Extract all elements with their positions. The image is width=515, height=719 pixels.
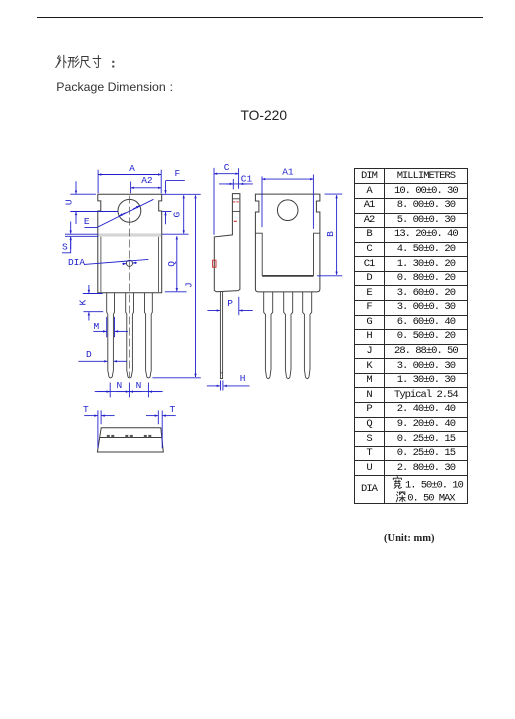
back lead 3 [303, 292, 312, 379]
char 深 (row DIA line2) [396, 492, 405, 502]
heading text: Package Dimension [56, 80, 173, 94]
lead section 1 [107, 435, 115, 438]
dim U [64, 181, 76, 224]
front lead 1 [107, 293, 115, 378]
BOTTOM VIEW [97, 428, 163, 452]
bottom view mid line [100, 437, 162, 439]
back cavity bottom thick line [262, 275, 313, 277]
dim P [207, 297, 252, 315]
tab groove lines [232, 198, 240, 200]
dim Q [165, 236, 187, 292]
dim C [214, 162, 239, 235]
dim T left [83, 404, 115, 449]
dim A2 [131, 175, 162, 194]
DIA cell values text [405, 480, 464, 505]
back mounting hole [277, 200, 298, 221]
ref line top edge left [70, 193, 96, 195]
top horizontal rule [37, 17, 483, 19]
mounting hole [118, 199, 141, 222]
svg-text:F: F [175, 168, 181, 179]
svg-text:B: B [325, 231, 336, 237]
svg-text:P: P [227, 298, 233, 309]
svg-text:T: T [83, 404, 89, 415]
dim D [79, 349, 128, 361]
svg-text:D: D [86, 349, 92, 360]
dim J [152, 195, 200, 378]
dim N [95, 380, 163, 397]
svg-text:J: J [184, 282, 195, 288]
svg-text:U: U [64, 199, 75, 205]
front body outline with side notches [98, 194, 162, 293]
svg-text:Q: Q [166, 261, 177, 267]
SIDE VIEW [213, 194, 240, 379]
vertical centerline (dashed) [128, 196, 130, 378]
BACK VIEW [255, 194, 320, 378]
svg-text:A1: A1 [282, 167, 294, 178]
front lead 2 [126, 293, 134, 378]
inner mold lines below band [100, 237, 102, 292]
svg-text:N: N [116, 380, 122, 391]
dimension table [354, 168, 469, 504]
heading chinese text 外形尺寸： (hand-drawn strokes) [56, 55, 115, 68]
svg-text:S: S [62, 241, 68, 252]
back cavity right step [314, 233, 320, 276]
svg-text:G: G [171, 211, 182, 217]
svg-text:M: M [93, 321, 99, 332]
side lead [220, 292, 222, 379]
dim H [207, 373, 250, 390]
lead section 3 [144, 435, 152, 438]
title TO-220 [241, 108, 288, 123]
lead section 2 [125, 435, 133, 438]
back cavity left step [255, 233, 262, 276]
dim A1 [262, 167, 313, 229]
char 寸 [93, 56, 101, 68]
front lead 3 [145, 293, 153, 378]
DIA cell chinese glyphs [393, 477, 405, 502]
FRONT VIEW [98, 194, 162, 378]
red rectangle mark on body edge [213, 260, 216, 267]
ref line hole center left [70, 211, 118, 213]
dim B [317, 194, 342, 276]
svg-text:H: H [240, 373, 246, 384]
dim C1 [219, 173, 253, 189]
dim K [77, 285, 103, 321]
dimple circle DIA [126, 260, 132, 266]
svg-text:A: A [129, 163, 135, 174]
dim S [62, 222, 98, 253]
svg-text:T: T [169, 404, 175, 415]
svg-text:E: E [84, 216, 90, 227]
dim E leader [84, 199, 154, 227]
svg-text:N: N [136, 380, 142, 391]
char 宽 (row DIA line1) [393, 477, 401, 489]
svg-text:C1: C1 [241, 173, 253, 184]
dim F [166, 168, 185, 224]
svg-text:DIA: DIA [68, 257, 85, 268]
svg-text:1. 50±0. 10: 1. 50±0. 10 [405, 480, 464, 492]
dim M [93, 317, 128, 337]
char 外 [56, 55, 66, 68]
side profile outline [214, 194, 240, 292]
side lead tip tick [220, 372, 222, 374]
DIMENSIONS (blue) [62, 162, 342, 448]
bottom view outline [97, 428, 163, 452]
red mark on tab [233, 201, 240, 203]
back lead 2 [284, 292, 293, 379]
unit note [384, 533, 434, 544]
svg-text:0. 50 MAX: 0. 50 MAX [407, 492, 456, 504]
ref line top edge right (to J) [162, 193, 201, 195]
dim A [98, 163, 161, 193]
red dash on tab lower [234, 220, 237, 222]
back lead 1 [264, 292, 273, 379]
svg-text:K: K [77, 299, 88, 305]
svg-text:A2: A2 [141, 175, 153, 186]
ref line hole center right stub [162, 211, 171, 213]
seating plane gray band [98, 233, 161, 236]
dim G [162, 195, 189, 234]
char 尺 [80, 57, 90, 68]
char 形 [68, 56, 79, 68]
back body outline with notches and rounded bottom corners [255, 194, 320, 292]
svg-text:C: C [224, 162, 230, 173]
fullwidth colon [112, 61, 114, 68]
dim T right [146, 404, 176, 448]
dim DIA leader [68, 257, 148, 268]
